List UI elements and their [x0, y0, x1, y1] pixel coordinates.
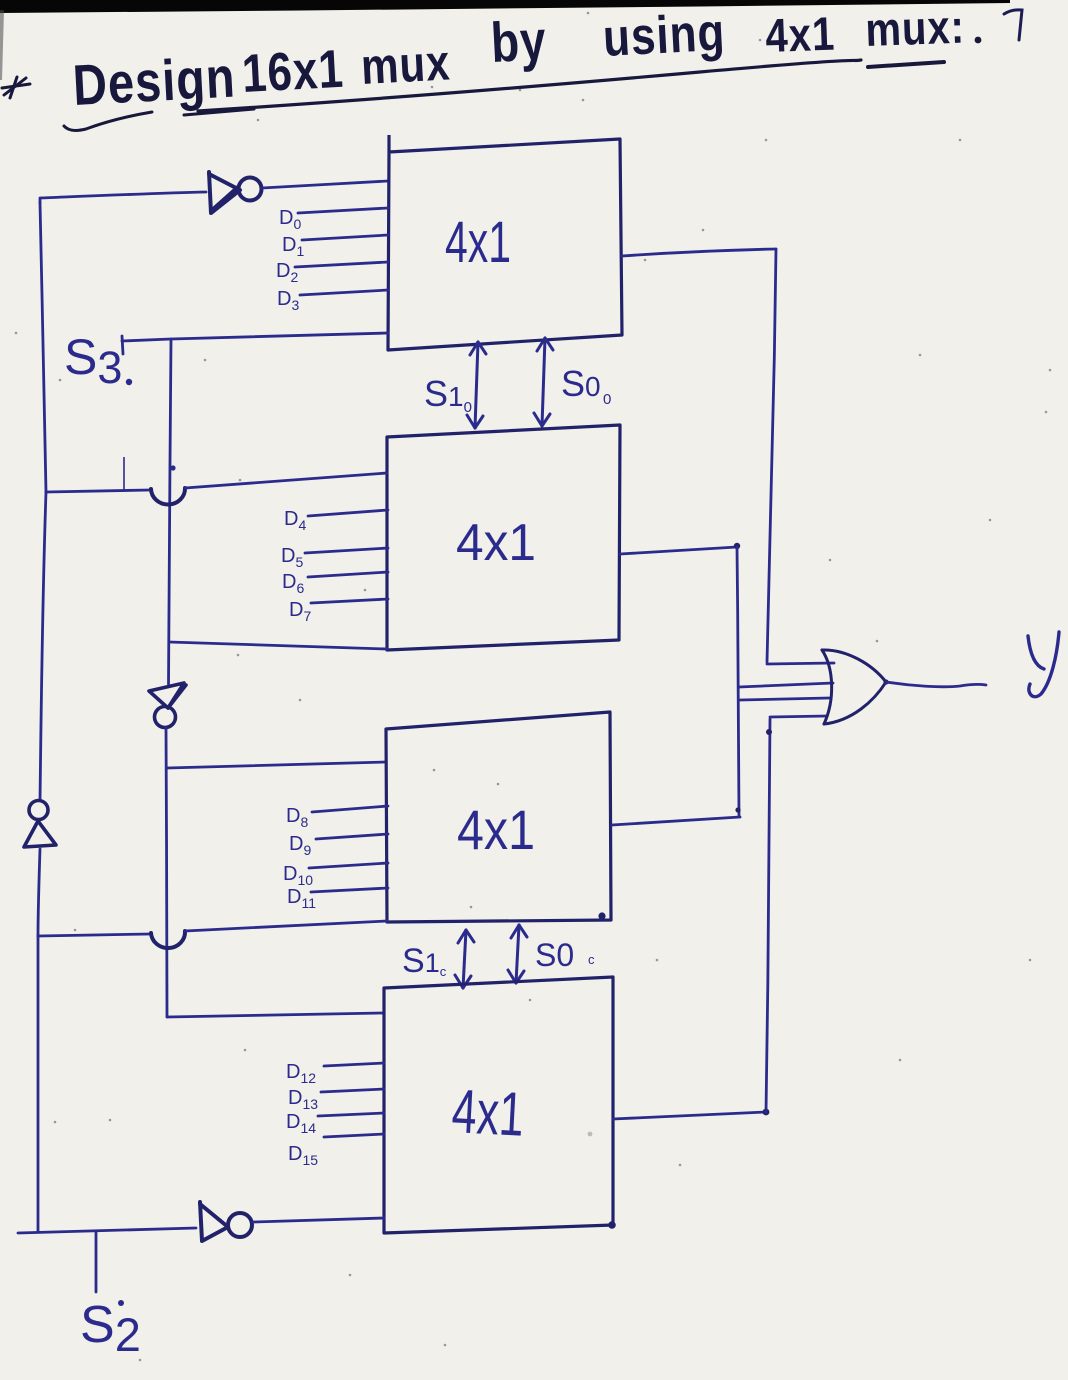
wire: vertical from U2 output down to U3 output	[737, 547, 739, 816]
title underline start dash	[184, 109, 254, 115]
wire: S3 rail branch to mux U3 left edge	[167, 762, 386, 768]
svg-text:4x1: 4x1	[457, 798, 535, 861]
select arrow S0 (between U3 and U4)	[508, 925, 527, 983]
svg-text:mux: mux	[360, 34, 452, 95]
swoosh mark below Design	[64, 112, 152, 130]
inverter G1 (NOT gate at top)	[209, 172, 262, 213]
svg-text:S10: S10	[424, 373, 472, 416]
svg-text:D12: D12	[286, 1061, 316, 1086]
svg-text:D14: D14	[286, 1111, 316, 1136]
faint pencil mark	[588, 1132, 593, 1137]
scan artifact: black bar top edge	[0, 0, 1010, 13]
corner dot U2 output	[734, 543, 740, 549]
svg-text:D9: D9	[289, 833, 311, 858]
wire: U1 output long vertical down	[767, 249, 776, 662]
stray tick above hop wire	[123, 457, 125, 491]
underline under mux	[868, 62, 944, 67]
svg-text:4x1: 4x1	[450, 1077, 526, 1150]
corner dot U4 output	[763, 1109, 770, 1116]
wire: S3 rail corner to mux U4 left edge	[167, 1013, 384, 1017]
svg-text:D0: D0	[279, 207, 301, 232]
wire: bottom horizontal left segment	[18, 1228, 196, 1233]
svg-text:c: c	[588, 952, 595, 967]
wire: OR output to y	[886, 682, 986, 687]
mux U1 box (4x1)	[388, 135, 622, 350]
svg-text:D11: D11	[287, 886, 316, 911]
wire: U1 output right	[622, 249, 776, 256]
wire: inverter G4 output to mux U4	[253, 1218, 384, 1222]
junction dot on vertical at U3 output	[735, 807, 740, 812]
wire: left rail middle (hop1 branch down to inverter G3)	[40, 492, 46, 800]
wire: hop to U2 left edge	[185, 473, 387, 488]
svg-text:D7: D7	[289, 599, 311, 624]
select arrow S1 (between U1 and U2)	[467, 342, 486, 428]
svg-text:S2: S2	[80, 1296, 141, 1361]
mux U2 box (4x1)	[387, 425, 620, 650]
or-gate U5	[822, 650, 886, 724]
select arrow S1 (between U3 and U4)	[455, 930, 474, 988]
svg-text:D1: D1	[282, 234, 304, 259]
svg-text:Design: Design	[71, 46, 237, 118]
S3 stub tick	[122, 336, 123, 354]
mux U3 box (4x1)	[386, 712, 611, 922]
wire: inverter G1 output to mux U1 left edge	[262, 181, 388, 188]
asterisk mark left margin	[2, 77, 30, 98]
wire: U2 output right	[620, 547, 737, 554]
svg-text:D13: D13	[288, 1087, 318, 1112]
inverter G3 (NOT gate pointing up on left rail)	[24, 801, 56, 848]
svg-text:S0: S0	[535, 937, 574, 973]
svg-text:S3: S3	[64, 329, 122, 393]
ink blob on U4 vertical	[766, 729, 772, 735]
wire: left rail to mux U3 bottom-left with hop over S3 rail	[38, 934, 150, 936]
svg-text:D4: D4	[284, 508, 306, 533]
wire hop (jump) over S3 rail	[151, 488, 185, 505]
wire: S3 rail branch down	[169, 339, 172, 684]
svg-text:mux:: mux:	[865, 0, 966, 56]
wire: U4 output right	[613, 1112, 766, 1119]
wire: left rail upper (top wire corner down to hop1 branch)	[40, 203, 46, 492]
title text: Design 16x1 mux by using 4x1 mux	[71, 0, 965, 118]
svg-text:D8: D8	[286, 805, 308, 830]
title underline main	[198, 60, 861, 111]
ink dot on S3 rail near hop	[170, 465, 175, 470]
S3 terminal circle	[126, 379, 132, 385]
svg-text:S0: S0	[561, 363, 601, 404]
svg-text:by: by	[489, 9, 548, 74]
svg-text:4x1: 4x1	[456, 514, 536, 572]
junction dot on U3 bottom edge	[598, 912, 605, 919]
svg-text:0: 0	[603, 391, 611, 408]
wire: left rail bottom (hop2 branch down to bottom wire)	[37, 936, 40, 1231]
wire: top horizontal from left rail to inverter G1	[40, 192, 206, 203]
inverter G4 (NOT gate at bottom)	[200, 1202, 252, 1241]
svg-text:S1c: S1c	[402, 942, 447, 980]
svg-text:D6: D6	[282, 571, 304, 596]
scan artifact: dark sliver left edge	[0, 10, 4, 80]
junction dot U4 bottom-right corner	[608, 1221, 616, 1229]
wire: OR input 4 stub	[770, 716, 827, 717]
mux U4 box (4x1)	[384, 977, 613, 1233]
wire: OR input 3 stub	[740, 698, 829, 700]
svg-text:D5: D5	[281, 545, 303, 570]
title period dot	[975, 37, 982, 44]
wire: U3 output right	[612, 817, 740, 825]
wire: S3 rail to mux U2 bottom-left corner	[169, 642, 387, 649]
wire hop (jump) over S3 rail lower	[151, 931, 185, 948]
svg-text:using: using	[602, 3, 727, 68]
wire: S3 rail below G2	[166, 728, 167, 1017]
wire: OR input 1 stub	[767, 663, 834, 664]
or-gate tip dot	[883, 679, 888, 684]
svg-text:D3: D3	[277, 288, 299, 313]
wire: left rail lower (inverter G3 down to hop2 branch)	[38, 849, 40, 936]
S2 stub wire	[95, 1231, 98, 1292]
wire: OR input 2 stub	[739, 683, 833, 687]
wire: vertical from U4 output up to OR input 4	[766, 719, 770, 1112]
svg-text:D2: D2	[276, 260, 298, 285]
label y (output)	[1028, 632, 1059, 697]
scan artifact: corner mark top right	[1004, 10, 1022, 40]
wire: hop to U3 bottom-left corner	[185, 921, 387, 931]
S2 dot	[118, 1300, 124, 1306]
inverter G2 (NOT gate pointing down on S3 rail)	[149, 683, 186, 728]
svg-text:16x1: 16x1	[241, 40, 346, 104]
wire: S3 to mux U1 lower left	[122, 333, 388, 341]
wire: left rail to mux U2 with hop over S3 rail	[46, 490, 150, 492]
svg-text:D15: D15	[288, 1143, 318, 1168]
svg-text:4x1: 4x1	[765, 8, 837, 63]
svg-text:4x1: 4x1	[445, 210, 511, 275]
select arrow S0 (between U1 and U2)	[534, 338, 553, 426]
